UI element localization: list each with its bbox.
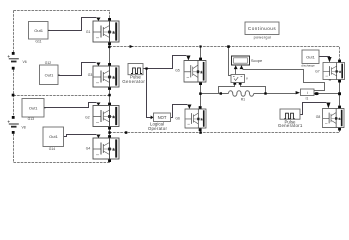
svg-text:V6: V6: [23, 60, 27, 64]
svg-text:G4: G4: [86, 147, 91, 151]
svg-text:G8: G8: [316, 115, 321, 119]
svg-text:Scope: Scope: [251, 58, 263, 63]
svg-text:Operator: Operator: [148, 126, 168, 131]
svg-text:powergui: powergui: [254, 36, 272, 40]
svg-text:Out1: Out1: [34, 28, 43, 33]
svg-text:discharge: discharge: [301, 64, 315, 68]
svg-text:G5: G5: [175, 69, 180, 73]
svg-text:Continuous: Continuous: [248, 26, 276, 31]
svg-text:G3: G3: [88, 73, 93, 77]
svg-text:G7: G7: [315, 69, 320, 73]
svg-text:NOT: NOT: [158, 115, 167, 120]
svg-text:G11: G11: [35, 40, 41, 44]
svg-text:G2: G2: [85, 116, 90, 120]
svg-text:Generator1: Generator1: [278, 123, 303, 128]
svg-text:Out1: Out1: [45, 73, 54, 78]
svg-text:G1: G1: [86, 30, 91, 34]
svg-text:v: v: [246, 77, 248, 81]
svg-text:Out1: Out1: [306, 54, 315, 59]
svg-text:R1: R1: [241, 98, 245, 102]
svg-text:Out1: Out1: [49, 134, 58, 139]
svg-text:Out1: Out1: [29, 105, 38, 110]
svg-text:i1: i1: [306, 96, 309, 100]
svg-text:G14: G14: [49, 147, 56, 151]
svg-text:G13: G13: [28, 117, 35, 121]
svg-text:V8: V8: [22, 125, 26, 129]
svg-text:G12: G12: [45, 61, 52, 65]
svg-text:G6: G6: [175, 116, 180, 120]
svg-text:i: i: [307, 90, 308, 95]
svg-text:Generator: Generator: [122, 79, 145, 84]
